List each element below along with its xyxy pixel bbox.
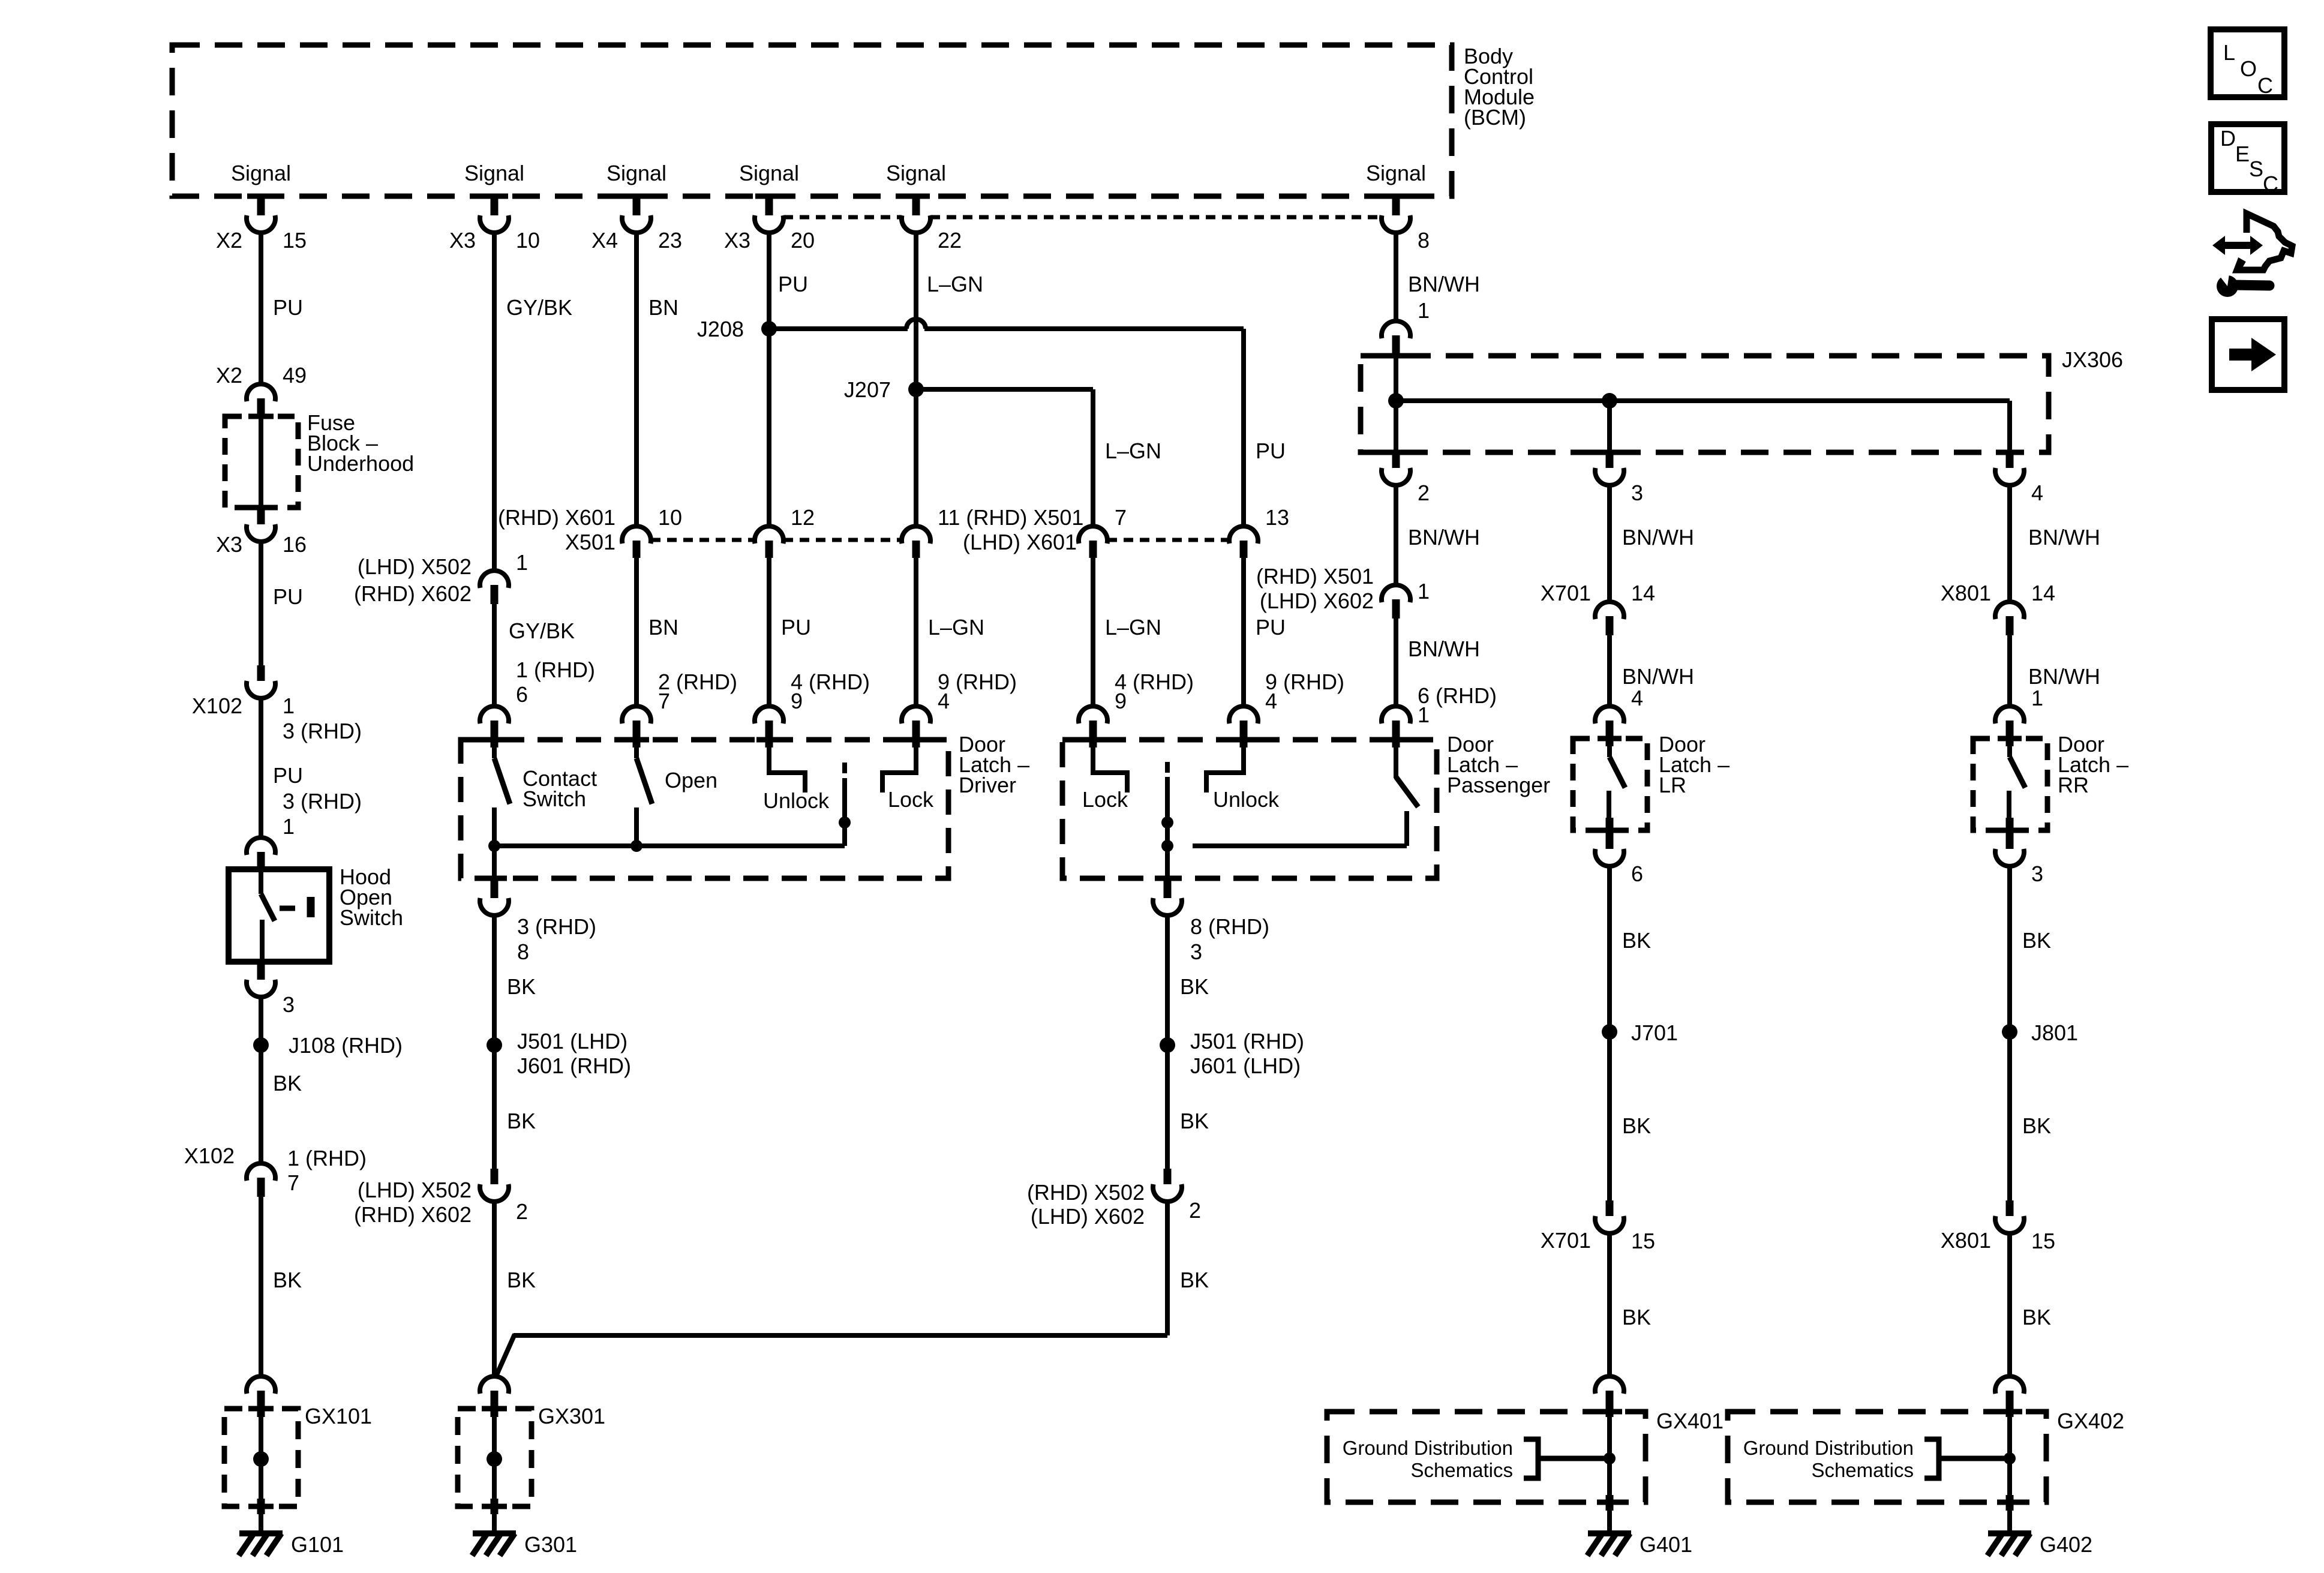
svg-text:Underhood: Underhood (307, 451, 414, 476)
connector pin 23 at BCM bottom (x=1061) (633, 197, 641, 217)
connector X2-49 into fuse block (247, 384, 275, 401)
wire through GX402 (2007, 1417, 2012, 1533)
svg-text:(LHD) X602: (LHD) X602 (1031, 1204, 1145, 1229)
ground distribution bracket (GX401) (1524, 1439, 1538, 1478)
connector pin 10 at BCM bottom (x=824) (491, 197, 499, 217)
connector X701 pin 15 (1606, 1200, 1614, 1218)
wire 8 col H upper (BN/WH) (1394, 233, 1398, 572)
fuse block underhood box (225, 416, 298, 508)
svg-text:C: C (2257, 73, 2273, 98)
svg-text:3 (RHD): 3 (RHD) (283, 719, 362, 743)
connector pin 8 at BCM bottom (x=2327) (1392, 197, 1400, 217)
svg-text:1: 1 (283, 814, 295, 839)
wire col H to passenger latch (BN/WH) (1394, 619, 1398, 706)
svg-text:BN/WH: BN/WH (1622, 664, 1694, 689)
svg-text:S: S (2249, 157, 2263, 181)
svg-text:X801: X801 (1941, 1228, 1991, 1253)
svg-text:L–GN: L–GN (927, 272, 983, 296)
LOC reference box (2211, 29, 2284, 97)
wire X2-15 to X2-49 (PU) (259, 233, 263, 384)
connector 22 cup overdraw (902, 215, 930, 233)
latch switch blade (LR) (1607, 744, 1612, 757)
svg-text:22: 22 (938, 228, 962, 253)
ground distribution box GX402 (1728, 1412, 2046, 1502)
ground G402 (1988, 1530, 2031, 1536)
svg-text:10: 10 (658, 505, 682, 530)
svg-text:Schematics: Schematics (1410, 1459, 1513, 1481)
connector X501/X602 pin 1 (col H) (1382, 585, 1410, 602)
svg-text:BK: BK (1180, 1268, 1209, 1292)
svg-text:BN/WH: BN/WH (1408, 272, 1480, 296)
svg-text:J108 (RHD): J108 (RHD) (289, 1033, 403, 1058)
connector into GX402 (1995, 1376, 2024, 1394)
svg-text:X3: X3 (724, 228, 750, 253)
wire X502 passenger down (BK) (1165, 1202, 1170, 1335)
connector X502/X602 pin 1 (col B) (480, 571, 509, 588)
diagnostic icon part outline (2237, 214, 2292, 270)
svg-text:BK: BK (1180, 974, 1209, 999)
svg-text:JX306: JX306 (2062, 347, 2123, 372)
svg-text:BN/WH: BN/WH (1622, 525, 1694, 550)
hop over col E wire (906, 319, 926, 329)
wire J701 to X701 (BK) (1607, 1032, 1612, 1202)
svg-text:1: 1 (1418, 703, 1430, 727)
svg-text:2: 2 (1189, 1198, 1201, 1223)
connector into GX301 (480, 1376, 509, 1394)
connector pin 20 at BCM bottom (x=1282) (765, 197, 773, 217)
connector into hood open switch (247, 837, 275, 855)
wire J208 to col G (769, 326, 908, 331)
wire RR latch to J801 (BK) (2007, 866, 2012, 1032)
wire X3-10 to X502 (GY/BK) (492, 233, 497, 571)
svg-text:J501 (LHD): J501 (LHD) (517, 1029, 627, 1053)
dotted connector tie line (BCM X3 row) (783, 215, 902, 220)
svg-text:8: 8 (517, 939, 529, 964)
svg-text:L–GN: L–GN (928, 615, 984, 640)
svg-text:1: 1 (1418, 579, 1430, 604)
latch switch blade (passenger) (1394, 744, 1398, 778)
wire col G down from J208 (1241, 329, 1246, 526)
Body Control Module (BCM) box outline (172, 45, 1452, 196)
svg-text:G401: G401 (1640, 1532, 1692, 1557)
connector 6 out of latch LR (1606, 818, 1614, 851)
svg-text:Unlock: Unlock (1213, 787, 1280, 812)
svg-text:PU: PU (1256, 615, 1286, 640)
connector into latch (x=1282) (755, 706, 783, 724)
driver latch link (842, 763, 847, 773)
wire color BN/WH (col H low) (1394, 485, 1398, 585)
svg-text:Signal: Signal (886, 161, 946, 185)
connector 3/8 out of driver latch (491, 879, 499, 900)
connector X501 pin 10 (col C) (622, 526, 651, 544)
svg-text:X701: X701 (1541, 581, 1591, 605)
svg-text:7: 7 (287, 1170, 299, 1195)
connector pin 2 out of JX306 (1392, 452, 1400, 470)
svg-text:3: 3 (1631, 481, 1643, 505)
svg-text:8 (RHD): 8 (RHD) (1190, 914, 1269, 939)
svg-text:BK: BK (273, 1268, 302, 1292)
connector into latch (x=1822) (1079, 706, 1107, 724)
wire driver latch to J501 (BK) (492, 915, 497, 1170)
unlock contact (driver) (769, 744, 805, 792)
svg-text:Signal: Signal (231, 161, 291, 185)
svg-text:BK: BK (1622, 1113, 1651, 1138)
svg-text:1: 1 (2031, 686, 2043, 710)
svg-text:Passenger: Passenger (1447, 773, 1550, 797)
door latch LR box (1573, 739, 1647, 830)
door latch driver box (461, 740, 948, 878)
diagnostic icon double arrow (2212, 236, 2263, 255)
junction J207 (908, 382, 924, 397)
wire col I to LR latch (BN/WH) (1607, 635, 1612, 706)
svg-text:Schematics: Schematics (1811, 1459, 1914, 1481)
splice pack JX306 box (1361, 356, 2049, 452)
connector into GX101 (247, 1376, 275, 1394)
svg-text:Open: Open (665, 768, 717, 792)
svg-text:11 (RHD) X501: 11 (RHD) X501 (938, 505, 1083, 530)
svg-text:6: 6 (1631, 861, 1643, 886)
svg-text:Signal: Signal (1366, 161, 1426, 185)
svg-text:6: 6 (516, 682, 528, 707)
open switch blade (driver) (634, 744, 639, 758)
svg-text:X3: X3 (216, 532, 242, 557)
svg-text:L–GN: L–GN (1105, 439, 1161, 463)
connector pin 1 into JX306 (1382, 321, 1410, 338)
svg-text:PU: PU (273, 295, 303, 320)
wire col x=2073 to latch (1241, 558, 1246, 706)
svg-text:13: 13 (1265, 505, 1289, 530)
ground distribution bracket (GX402) (1924, 1439, 1939, 1478)
svg-text:1 (RHD): 1 (RHD) (516, 658, 595, 682)
svg-text:Lock: Lock (888, 787, 934, 812)
ground distribution box GX401 (1327, 1412, 1646, 1502)
driver latch common wire (494, 843, 845, 848)
svg-text:BN: BN (648, 615, 678, 640)
svg-text:J601 (LHD): J601 (LHD) (1190, 1053, 1301, 1078)
svg-text:15: 15 (1631, 1229, 1655, 1253)
svg-text:1: 1 (516, 550, 528, 575)
svg-text:J601 (RHD): J601 (RHD) (517, 1053, 631, 1078)
svg-text:BK: BK (1622, 1305, 1651, 1329)
connector X801 pin 15 (2006, 1200, 2014, 1218)
svg-text:Switch: Switch (523, 786, 586, 811)
svg-text:4: 4 (938, 689, 950, 713)
wire col x=1282 to latch (767, 558, 771, 706)
connector 3 out of latch RR (2006, 818, 2014, 851)
svg-text:X4: X4 (591, 228, 618, 253)
svg-text:BK: BK (273, 1071, 302, 1095)
svg-text:10: 10 (516, 228, 540, 253)
svg-text:D: D (2220, 126, 2236, 151)
svg-text:BK: BK (2022, 1113, 2051, 1138)
svg-text:(RHD) X501: (RHD) X501 (1256, 564, 1374, 589)
svg-text:GX301: GX301 (538, 1404, 605, 1428)
wire col J to RR latch (BN/WH) (2007, 635, 2012, 706)
wire through GX101 (259, 1417, 263, 1533)
wire 22 col E upper (914, 233, 918, 389)
wire X3-20 col D upper (767, 233, 771, 329)
svg-text:(LHD) X602: (LHD) X602 (1260, 589, 1374, 613)
wire J207 to col F (916, 387, 1093, 392)
connector X502/X602 pin 2 (passenger) (1164, 1169, 1172, 1186)
connector 8/3 out of passenger latch (1164, 879, 1172, 900)
svg-text:14: 14 (1631, 581, 1655, 605)
junction J501/J601 (passenger) (1160, 1037, 1175, 1053)
svg-text:(RHD) X502: (RHD) X502 (1027, 1180, 1145, 1205)
svg-text:Signal: Signal (464, 161, 524, 185)
connector into GX401 (1595, 1376, 1624, 1394)
connector X701 pin 14 (1595, 602, 1624, 619)
svg-text:8: 8 (1418, 228, 1430, 253)
svg-text:BK: BK (1180, 1109, 1209, 1133)
svg-text:23: 23 (658, 228, 682, 253)
wire J801 to X801 (BK) (2007, 1032, 2012, 1202)
svg-text:Driver: Driver (959, 773, 1016, 797)
wire X502 to GX301 (BK) (492, 1202, 497, 1376)
svg-text:(RHD) X601: (RHD) X601 (498, 505, 615, 530)
svg-text:G101: G101 (291, 1532, 344, 1557)
svg-text:20: 20 (791, 228, 815, 253)
wire through GX301 (492, 1417, 497, 1533)
svg-text:4: 4 (2031, 481, 2043, 505)
connector pin 22 at BCM bottom (x=1527) (912, 197, 920, 217)
svg-text:9: 9 (1115, 689, 1127, 713)
svg-text:O: O (2240, 56, 2257, 81)
svg-text:J208: J208 (697, 317, 744, 341)
svg-text:BN: BN (648, 295, 678, 320)
svg-text:GX401: GX401 (1656, 1409, 1724, 1433)
wire X4-23 col C upper (634, 233, 639, 526)
svg-text:Ground Distribution: Ground Distribution (1343, 1437, 1513, 1459)
svg-text:J701: J701 (1631, 1020, 1678, 1045)
connector 4 into LR latch (1595, 706, 1624, 724)
svg-text:GY/BK: GY/BK (506, 295, 572, 320)
svg-text:(BCM): (BCM) (1464, 105, 1526, 130)
svg-text:3: 3 (2031, 861, 2043, 886)
connector X801 pin 14 (1995, 602, 2024, 619)
svg-text:2: 2 (1418, 481, 1430, 505)
svg-text:Signal: Signal (739, 161, 799, 185)
svg-text:15: 15 (2031, 1229, 2055, 1253)
svg-text:(LHD) X502: (LHD) X502 (358, 1178, 472, 1202)
connector 1 into RR latch (1995, 706, 2024, 724)
wire col x=1061 to latch (634, 558, 639, 706)
svg-text:2: 2 (516, 1199, 528, 1224)
passenger latch link (1165, 762, 1170, 773)
connector X102 pin 1(RHD)/7 (247, 1163, 275, 1181)
wire col x=1822 to latch (1091, 558, 1095, 706)
svg-text:L: L (2223, 40, 2235, 65)
svg-text:J501 (RHD): J501 (RHD) (1190, 1029, 1304, 1053)
connector pin 7 (col F) (1079, 526, 1107, 544)
wire col E J207 to connector (914, 389, 918, 526)
connector into latch (x=1061) (622, 706, 651, 724)
svg-text:C: C (2263, 172, 2278, 196)
wire through GX401 (1607, 1417, 1612, 1533)
ground G401 (1588, 1530, 1631, 1536)
wire passenger latch to J501 (BK) (1165, 915, 1170, 1170)
lock contact (driver) (882, 744, 916, 792)
svg-text:G402: G402 (2040, 1532, 2092, 1557)
connector pin 4 out of JX306 (2006, 452, 2014, 470)
svg-text:BK: BK (2022, 1305, 2051, 1329)
svg-text:L–GN: L–GN (1105, 615, 1161, 640)
svg-text:BN/WH: BN/WH (1408, 637, 1480, 661)
connector X502/X602 pin 2 (col B) (491, 1169, 499, 1186)
contact switch blade (driver) (492, 744, 497, 758)
splice pack GX301 box (458, 1409, 532, 1506)
svg-text:PU: PU (778, 272, 808, 296)
forward reference arrow box (2212, 319, 2284, 390)
unlock contact (passenger) (1206, 744, 1244, 792)
svg-text:BK: BK (2022, 928, 2051, 953)
wire col H through JX306 (1394, 356, 1398, 452)
svg-text:X2: X2 (216, 363, 242, 388)
svg-text:4: 4 (1631, 686, 1643, 710)
wire col x=1527 to latch (914, 558, 918, 706)
svg-text:(RHD) X602: (RHD) X602 (354, 581, 472, 606)
connector pin 15 at BCM bottom (x=435) (257, 197, 265, 217)
svg-text:BK: BK (507, 1268, 536, 1292)
svg-text:1: 1 (283, 694, 295, 718)
svg-text:PU: PU (273, 763, 303, 788)
connector X3-16 out of fuse block (257, 508, 265, 526)
connector pin 13 (col G) (1229, 526, 1258, 544)
svg-text:X701: X701 (1541, 1228, 1591, 1253)
svg-text:7: 7 (1115, 505, 1127, 530)
svg-text:(RHD) X602: (RHD) X602 (354, 1202, 472, 1227)
svg-text:Ground Distribution: Ground Distribution (1743, 1437, 1914, 1459)
svg-text:X3: X3 (449, 228, 476, 253)
svg-text:J207: J207 (844, 377, 891, 402)
svg-text:J801: J801 (2031, 1020, 2078, 1045)
svg-text:X501: X501 (565, 530, 615, 554)
lock contact (passenger) (1093, 744, 1127, 792)
svg-text:BK: BK (1622, 928, 1651, 953)
wire color BN/WH (col J) (2007, 485, 2012, 602)
door latch RR box (1973, 739, 2047, 830)
junction J208 (761, 321, 777, 337)
svg-text:1 (RHD): 1 (RHD) (287, 1146, 367, 1170)
wire X3-16 to X102 (PU) (259, 542, 263, 667)
svg-text:BN/WH: BN/WH (2028, 525, 2100, 550)
svg-text:BK: BK (507, 974, 536, 999)
latch switch blade (RR) (2007, 744, 2012, 757)
connector pin 3 out of JX306 (1606, 452, 1614, 470)
dotted connector tie line (X501/X601 row) (651, 538, 755, 542)
svg-text:4: 4 (1265, 689, 1277, 713)
svg-text:PU: PU (273, 584, 303, 609)
svg-text:49: 49 (283, 363, 307, 388)
svg-text:BK: BK (507, 1109, 536, 1133)
junction J108 (RHD) (253, 1037, 269, 1053)
svg-text:E: E (2235, 142, 2250, 166)
wire through fuse block (259, 419, 263, 506)
junction J501/J601 (col B) (487, 1037, 502, 1053)
ground G101 (239, 1530, 283, 1536)
svg-text:9: 9 (791, 689, 803, 713)
svg-text:X2: X2 (216, 228, 242, 253)
svg-text:X102: X102 (192, 694, 242, 718)
wire X102 to GX101 (BK) (259, 1197, 263, 1376)
JX306 bus bar (1396, 398, 2010, 403)
wire col I from bus (1607, 401, 1612, 452)
connector 3 out of hood switch (257, 962, 265, 981)
svg-text:12: 12 (791, 505, 815, 530)
connector pin 12 (col D) (755, 526, 783, 544)
svg-text:7: 7 (658, 689, 670, 713)
junction J801 (2002, 1024, 2017, 1040)
wire X502 to contact switch (GY/BK) (492, 604, 497, 706)
splice pack GX101 box (224, 1409, 298, 1506)
hood switch plunger link (280, 906, 295, 911)
wire X801 to GX402 (BK) (2007, 1233, 2012, 1376)
ground G301 (473, 1530, 516, 1536)
diagnostic icon wrench (2217, 275, 2238, 297)
svg-text:3: 3 (1190, 939, 1202, 964)
svg-text:Switch: Switch (340, 905, 403, 930)
svg-text:G301: G301 (524, 1532, 577, 1557)
svg-text:(LHD) X601: (LHD) X601 (963, 530, 1077, 554)
wire passenger to GX301 run (514, 1333, 1167, 1338)
svg-text:16: 16 (283, 532, 307, 557)
DESC reference box (2211, 124, 2284, 192)
wire X701 to GX401 (BK) (1607, 1233, 1612, 1376)
svg-text:RR: RR (2058, 773, 2089, 797)
connector 1 into passenger latch (1382, 706, 1410, 724)
wire LR latch to J701 (BK) (1607, 866, 1612, 1032)
svg-text:3: 3 (283, 992, 295, 1017)
svg-text:BN/WH: BN/WH (2028, 664, 2100, 689)
wire color BN/WH (col I) (1607, 485, 1612, 602)
svg-text:GX101: GX101 (305, 1404, 372, 1428)
svg-text:3 (RHD): 3 (RHD) (517, 914, 596, 939)
svg-text:(LHD) X502: (LHD) X502 (358, 554, 472, 579)
svg-text:PU: PU (781, 615, 811, 640)
svg-text:PU: PU (1256, 439, 1286, 463)
svg-text:BN/WH: BN/WH (1408, 525, 1480, 550)
svg-text:Unlock: Unlock (763, 788, 830, 813)
svg-text:3 (RHD): 3 (RHD) (283, 789, 362, 813)
svg-text:15: 15 (283, 228, 307, 253)
svg-text:GX402: GX402 (2057, 1409, 2124, 1433)
connector into latch (x=1527) (902, 706, 930, 724)
door latch passenger box (1062, 740, 1437, 878)
hood open switch contact (259, 871, 263, 894)
svg-text:X801: X801 (1941, 581, 1991, 605)
svg-text:X102: X102 (184, 1143, 235, 1168)
wire col D J208 to connector (767, 329, 771, 526)
svg-text:Lock: Lock (1082, 787, 1128, 812)
wire col B through driver box bottom (492, 846, 497, 879)
svg-text:GY/BK: GY/BK (509, 619, 575, 643)
junction J701 (1602, 1024, 1617, 1040)
svg-text:Signal: Signal (606, 161, 666, 185)
connector pin 11 (col E) (902, 526, 930, 544)
hood open switch box (229, 869, 329, 962)
svg-text:LR: LR (1659, 773, 1686, 797)
svg-text:14: 14 (2031, 581, 2055, 605)
connector into latch (x=2073) (1229, 706, 1258, 724)
connector X102 pin 1/3 (257, 665, 265, 683)
wire hood switch to X102 (BK) (259, 997, 263, 1163)
svg-text:1: 1 (1418, 298, 1430, 323)
wire X102 to hood switch (PU) (259, 698, 263, 837)
connector 6 into door latch driver (480, 706, 509, 724)
